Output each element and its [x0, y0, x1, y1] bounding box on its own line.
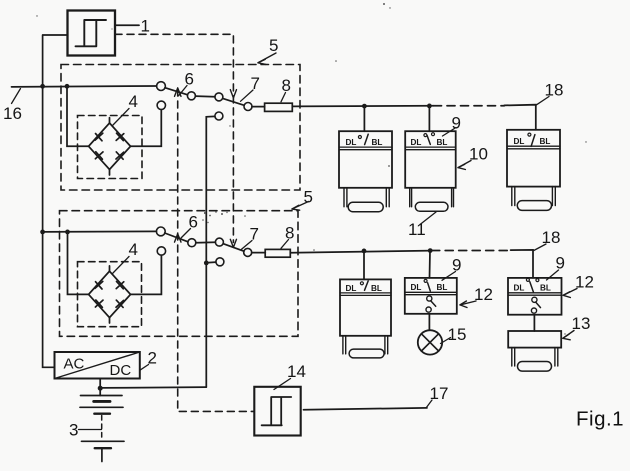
wire drop unit2 (upper)	[428, 106, 430, 131]
svg-text:9: 9	[556, 254, 565, 273]
svg-text:18: 18	[545, 81, 564, 100]
wire D to resistor 8 (lower)	[252, 252, 266, 254]
node drop unit2 (upper)	[427, 104, 432, 109]
wire label5 arrow (upper)	[258, 53, 276, 64]
drive unit M3 (upper row right)	[507, 130, 560, 211]
svg-text:12: 12	[575, 273, 594, 292]
switch 7 blade (lower)	[223, 244, 244, 252]
converter block 5 (upper dashed box)	[61, 65, 300, 191]
control dashed line from U1 to switches 7	[115, 34, 233, 242]
drive unit M4 (lower row left)	[340, 279, 391, 358]
drive unit M1 (upper row left)	[339, 131, 392, 212]
control dashed line from U14 to switches 6	[178, 89, 255, 411]
drive unit M2 (upper row middle)	[405, 131, 456, 211]
wire distribution end + drop unit3 (lower)	[511, 250, 533, 278]
converter block 5 (lower dashed box)	[60, 211, 299, 337]
wire label13 arrow	[563, 331, 574, 340]
node rail-line2	[40, 230, 45, 235]
switch 7 contact C (upper)	[215, 93, 223, 101]
bridge rectifier 4 (upper diamond)	[89, 118, 131, 175]
node drop unit2 (lower)	[428, 248, 433, 253]
svg-text:8: 8	[282, 76, 291, 95]
wire U1 left to rail	[43, 34, 68, 36]
lamp unit 12 (lower row middle)	[405, 278, 457, 314]
switch 7 contact C (lower)	[215, 238, 223, 246]
diode D4 (upper bridge right-bottom)	[116, 152, 124, 159]
switch 6 contact B (upper)	[187, 92, 195, 100]
diode D3 (upper bridge left-bottom)	[95, 152, 103, 159]
svg-text:8: 8	[285, 224, 294, 243]
wire label16 pointer	[12, 89, 21, 104]
wire main line (lower feed)	[43, 230, 157, 233]
threshold switch U14 (hysteresis box)	[254, 387, 300, 436]
wire label8 pointer (upper)	[281, 93, 286, 102]
wire distribution dashed (upper)	[434, 105, 505, 107]
wire drop unit1 (upper)	[363, 106, 365, 131]
wire bridge to contact E2 (lower)	[131, 255, 162, 294]
wire label9 pointer (lower middle)	[442, 272, 456, 281]
node feed-bridge (lower)	[65, 230, 70, 235]
svg-text:14: 14	[287, 362, 306, 381]
wire relay to drive 13	[533, 315, 535, 331]
node rail-line1	[40, 84, 45, 89]
svg-text:DC: DC	[110, 362, 132, 379]
wire distribution line (upper)	[292, 105, 433, 108]
node battery-rail	[98, 386, 103, 391]
svg-text:BL: BL	[437, 283, 448, 292]
switch 6 blade (lower)	[165, 233, 188, 242]
paper speckles (scan noise)	[36, 3, 586, 335]
svg-text:4: 4	[129, 240, 138, 259]
wire label9 pointer (lower right)	[547, 270, 559, 280]
contact E2 (lower)	[157, 247, 165, 255]
svg-text:5: 5	[269, 36, 278, 55]
wire F to common rail	[206, 116, 215, 387]
wire label14 pointer	[274, 379, 291, 390]
wire label7 pointer (lower)	[242, 241, 253, 250]
wire drop unit2 (lower)	[429, 251, 432, 278]
switch 7 blade (upper)	[223, 98, 245, 105]
wire label3 pointer	[79, 429, 102, 431]
threshold switch U1 (hysteresis box)	[68, 11, 116, 56]
wire label18 pointer (lower)	[534, 244, 546, 251]
svg-text:BL: BL	[540, 284, 551, 293]
wire label12 arrow (lower middle)	[460, 301, 476, 308]
svg-text:BL: BL	[371, 284, 382, 293]
wire distribution dashed (lower)	[432, 250, 511, 252]
wire label10 arrow	[458, 161, 471, 170]
arrow on switch 6 (upper)	[175, 88, 182, 97]
diode D6 (lower bridge right-top)	[116, 281, 124, 288]
wire B-C (lower)	[196, 241, 216, 244]
svg-text:AC: AC	[64, 356, 85, 373]
svg-text:BL: BL	[372, 138, 383, 147]
wire U1 to label 1	[115, 24, 139, 26]
wire label11 pointer	[420, 212, 436, 225]
wire label18 pointer (upper)	[537, 97, 550, 105]
svg-text:DL: DL	[411, 138, 422, 147]
wire label17 pointer	[426, 400, 432, 408]
wire drop unit1 (lower)	[363, 251, 365, 280]
svg-text:9: 9	[452, 256, 461, 275]
wire distribution end + drop unit3 (upper)	[504, 105, 536, 130]
svg-text:12: 12	[474, 285, 493, 304]
wire lamp unit to lamp 15	[428, 314, 430, 330]
wire battery to common rail	[100, 386, 206, 389]
wire bridge to contact E (upper)	[131, 110, 162, 147]
switch 6 contact A (upper)	[157, 82, 166, 91]
svg-text:3: 3	[69, 421, 78, 440]
wire B-C (upper)	[195, 95, 215, 98]
wire label5 arrow (lower)	[292, 202, 309, 211]
svg-text:BL: BL	[437, 138, 448, 147]
svg-text:DL: DL	[411, 283, 422, 292]
drive unit 13 (lower row right)	[508, 331, 561, 371]
node feed-bridge (upper)	[65, 84, 70, 89]
wire left rail	[43, 35, 55, 367]
resistor 8 (lower)	[265, 249, 290, 257]
svg-text:DL: DL	[346, 284, 357, 293]
node drop unit1 (lower)	[362, 249, 367, 254]
wire converter to battery	[99, 379, 101, 396]
wire label2 pointer	[141, 365, 149, 370]
wire label9 pointer (upper)	[443, 128, 457, 137]
wire label4 pointer (lower)	[113, 257, 130, 274]
wire label6 pointer (upper)	[179, 86, 188, 96]
wire node to bridge 4 (lower)	[68, 232, 89, 295]
lamp 15	[418, 330, 442, 354]
diode D5 (lower bridge left-top)	[95, 281, 103, 289]
wire distribution line (lower)	[290, 251, 431, 253]
arrow on switch 6 (lower)	[175, 234, 182, 242]
arrow on switch 7 (lower)	[230, 239, 236, 247]
svg-text:BL: BL	[540, 137, 551, 146]
wire output line 17	[304, 408, 428, 410]
svg-text:15: 15	[448, 325, 467, 344]
diode D7 (lower bridge left-bottom)	[95, 300, 103, 307]
svg-text:16: 16	[3, 104, 22, 123]
arrow on switch 7 (upper)	[230, 90, 236, 98]
node F2 junction	[204, 261, 209, 266]
diode D1 (upper bridge left-top)	[95, 133, 103, 141]
wire main line 16 (upper feed)	[12, 85, 157, 88]
wire junction to contact F2	[206, 261, 216, 264]
contact F2 (lower)	[216, 258, 224, 266]
rectifier 4 dashed box (lower)	[78, 262, 142, 327]
svg-text:6: 6	[185, 70, 194, 89]
diode D2 (upper bridge right-top)	[116, 133, 124, 140]
node drop unit1 (upper)	[362, 104, 367, 109]
switch 6 blade (upper)	[165, 88, 188, 95]
svg-text:1: 1	[141, 17, 150, 36]
svg-text:Fig.1: Fig.1	[576, 408, 624, 431]
contact F (upper)	[215, 112, 223, 120]
svg-text:4: 4	[129, 92, 138, 111]
resistor 8 (upper)	[265, 103, 293, 111]
svg-text:10: 10	[469, 145, 488, 164]
wire label15 pointer	[441, 338, 451, 344]
rectifier 4 dashed box (upper)	[78, 116, 143, 179]
battery 3	[80, 396, 124, 462]
bridge rectifier 4 (lower diamond)	[89, 266, 131, 323]
svg-text:DL: DL	[514, 137, 525, 146]
switch 6 contact B (lower)	[188, 239, 196, 247]
wire node to bridge 4 (upper)	[67, 86, 89, 146]
switch 7 contact D (upper)	[244, 103, 252, 111]
switch 7 contact D (lower)	[244, 248, 252, 256]
relay unit 12 (lower row right)	[508, 278, 562, 315]
switch 6 contact A (lower)	[156, 227, 165, 236]
wire label12 arrow (lower right)	[563, 289, 577, 298]
wire label8 pointer (lower)	[281, 240, 289, 249]
wire D to resistor 8 (upper)	[252, 106, 265, 108]
svg-text:DL: DL	[346, 138, 357, 147]
wire label4 pointer (upper)	[113, 109, 130, 126]
diode D8 (lower bridge right-bottom)	[116, 300, 124, 307]
svg-text:DL: DL	[514, 284, 525, 293]
wire label6 pointer (lower)	[181, 229, 191, 239]
converter AC/DC 2	[55, 352, 140, 379]
wire label7 pointer (upper)	[241, 90, 254, 101]
contact E (upper)	[157, 101, 165, 109]
